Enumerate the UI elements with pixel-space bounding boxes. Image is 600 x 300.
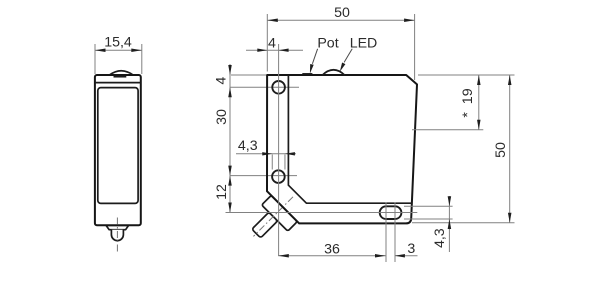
side view inner window [98, 88, 138, 204]
svg-text:50: 50 [334, 5, 350, 21]
dimension 15,4 arrow left [95, 49, 106, 53]
dimension 4,3 slot arrow down [448, 196, 452, 206]
dimension 15,4 line [95, 49, 142, 51]
dimension 3 line [395, 255, 418, 257]
dimension *19 line [478, 75, 480, 130]
dimension 4,3 slot extension lines [404, 206, 453, 219]
svg-text:4,3: 4,3 [238, 138, 258, 154]
left dim column line [229, 64, 231, 213]
Pot leader line [312, 49, 317, 64]
dimension 4 top arrow left [257, 49, 267, 52]
dimension 36 line [278, 255, 385, 257]
svg-text:15,4: 15,4 [104, 35, 132, 51]
dimension *19 arrow down [477, 120, 481, 130]
front body outline [267, 75, 417, 223]
Pot leader arrow [310, 64, 314, 74]
LED dome on top edge [322, 70, 345, 75]
dimension 36 arrow left [278, 254, 289, 257]
ext line hole1 center y87.3 [230, 86, 299, 88]
dimension *19 arrow up [477, 75, 481, 85]
svg-text:4,3: 4,3 [432, 228, 448, 248]
side view top cap line [95, 82, 141, 84]
dimension 50 top arrow left [267, 18, 278, 22]
LED leader line [344, 49, 352, 63]
connector barrel [252, 212, 278, 238]
dimension 50 right extension bottom y222.7 [412, 222, 515, 224]
dimension 4,3 arrow right [285, 152, 295, 155]
mounting hole 2 [272, 170, 285, 183]
arrow up tip y175.6 [228, 176, 232, 186]
potentiometer bump [302, 73, 312, 75]
dimension 50 right arrow up [508, 75, 512, 85]
mounting hole 1 [272, 81, 285, 94]
dimension 4,3 arrow left [262, 152, 272, 155]
dimension 4 top arrow right [279, 49, 289, 52]
side view body outline [95, 75, 141, 225]
dimension *19 extension top y75 [418, 74, 515, 76]
LED leader arrow [340, 63, 346, 72]
dimension 50 right line [509, 75, 511, 223]
arrow down tip y175.6 [228, 166, 232, 176]
dimension 50 right arrow down [508, 213, 512, 223]
dimension 3 arrow [395, 254, 405, 257]
svg-text:12: 12 [214, 184, 230, 200]
side view lens dome [110, 71, 134, 75]
ext line top edge y75 [231, 74, 266, 76]
connector axis centerline [253, 197, 293, 237]
svg-text:36: 36 [324, 241, 340, 257]
svg-text:Pot: Pot [317, 36, 338, 52]
ext line hole2 center y175.6 [230, 175, 297, 177]
dimension 15,4 extension lines [95, 44, 142, 74]
svg-text:* 19: * 19 [460, 88, 476, 117]
connector and slot center horizontal reference line [226, 212, 418, 214]
arrow down tip y212.5 [228, 203, 232, 213]
dimension 50 top line [267, 19, 414, 21]
svg-text:LED: LED [350, 36, 378, 52]
svg-text:4: 4 [268, 36, 276, 52]
svg-text:50: 50 [493, 142, 509, 158]
dimension 50 top arrow right [404, 18, 415, 22]
side view lens chord [114, 76, 127, 78]
slot arc-center extension verticals [386, 203, 395, 263]
dimension 4,3 slot arrow up [448, 219, 452, 229]
connector collar [262, 195, 298, 231]
dimension 50 top extension lines [267, 14, 414, 80]
dimension 4,3 hole: extension lines [272, 155, 285, 170]
dimension 4 top line [246, 49, 303, 51]
side view connector collar [106, 225, 129, 229]
svg-text:4: 4 [213, 77, 229, 85]
connector assembly rotated 45deg [242, 185, 308, 251]
dimension *19 extension bottom y129.8 [412, 129, 483, 131]
arrow up tip y87.3 [228, 87, 232, 97]
front inner contour [288, 75, 412, 203]
slotted hole [380, 206, 402, 219]
dimension 4,3 hole line [236, 153, 296, 155]
side view centerline [116, 218, 118, 254]
dimension 4,3 slot line [448, 196, 450, 252]
dimension 36 arrow right [375, 254, 386, 257]
svg-text:3: 3 [407, 241, 415, 257]
dimension 15,4 arrow right [131, 49, 142, 53]
hole center vertical reference line [278, 44, 280, 256]
svg-text:30: 30 [214, 109, 230, 125]
arrow down tip y75 [228, 65, 232, 75]
side view connector barrel [111, 230, 123, 241]
